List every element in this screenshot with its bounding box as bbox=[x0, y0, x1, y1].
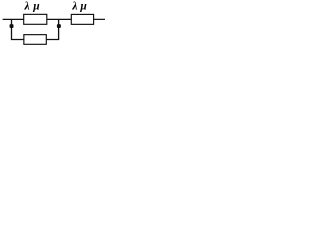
block box right bbox=[71, 14, 93, 24]
svg-text:λ: λ bbox=[24, 1, 30, 13]
junction dot right bbox=[57, 24, 61, 28]
reliability block schematic 105x45 bbox=[0, 0, 105, 45]
wire: main input segment bbox=[3, 18, 24, 20]
wire: middle segment bbox=[47, 18, 72, 20]
svg-text:λ: λ bbox=[71, 1, 77, 13]
wire: output segment bbox=[94, 18, 105, 20]
svg-text:μ: μ bbox=[79, 1, 87, 13]
block box lower bbox=[24, 35, 46, 45]
svg-text:μ: μ bbox=[32, 1, 40, 13]
wire: right branch bottom and up bbox=[46, 19, 58, 39]
block box upper-left bbox=[24, 14, 47, 24]
wire: left branch down and right bbox=[12, 19, 24, 39]
junction dot left bbox=[10, 24, 14, 28]
